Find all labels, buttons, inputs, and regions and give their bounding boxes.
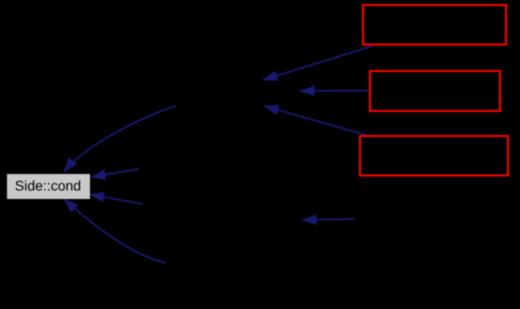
red truncated caller box 2 (middle right): [370, 71, 500, 111]
edge: red box 1 -> hidden middle node (arrow): [263, 46, 373, 80]
edge: hidden node -> Side::cond (lower right arrow): [90, 195, 144, 205]
red truncated caller box 1 (top right): [363, 5, 506, 45]
edge: hidden middle node -> Side::cond (top curve): [64, 106, 176, 172]
edge: red box 2 -> hidden middle node (arrow): [300, 90, 369, 93]
red truncated caller box 3 (lower right): [360, 136, 508, 176]
edge: hidden bottom node -> Side::cond (bottom curve): [64, 199, 166, 263]
node Side::cond (current node, grey): [7, 174, 90, 199]
edge: hidden node -> Side::cond (upper right arrow): [91, 169, 139, 177]
edge: hidden right node -> hidden bottom-middle node (arrow): [302, 219, 354, 220]
edge: red box 3 -> hidden middle node (arrow): [264, 106, 366, 135]
svg-text:Side::cond: Side::cond: [15, 177, 81, 193]
